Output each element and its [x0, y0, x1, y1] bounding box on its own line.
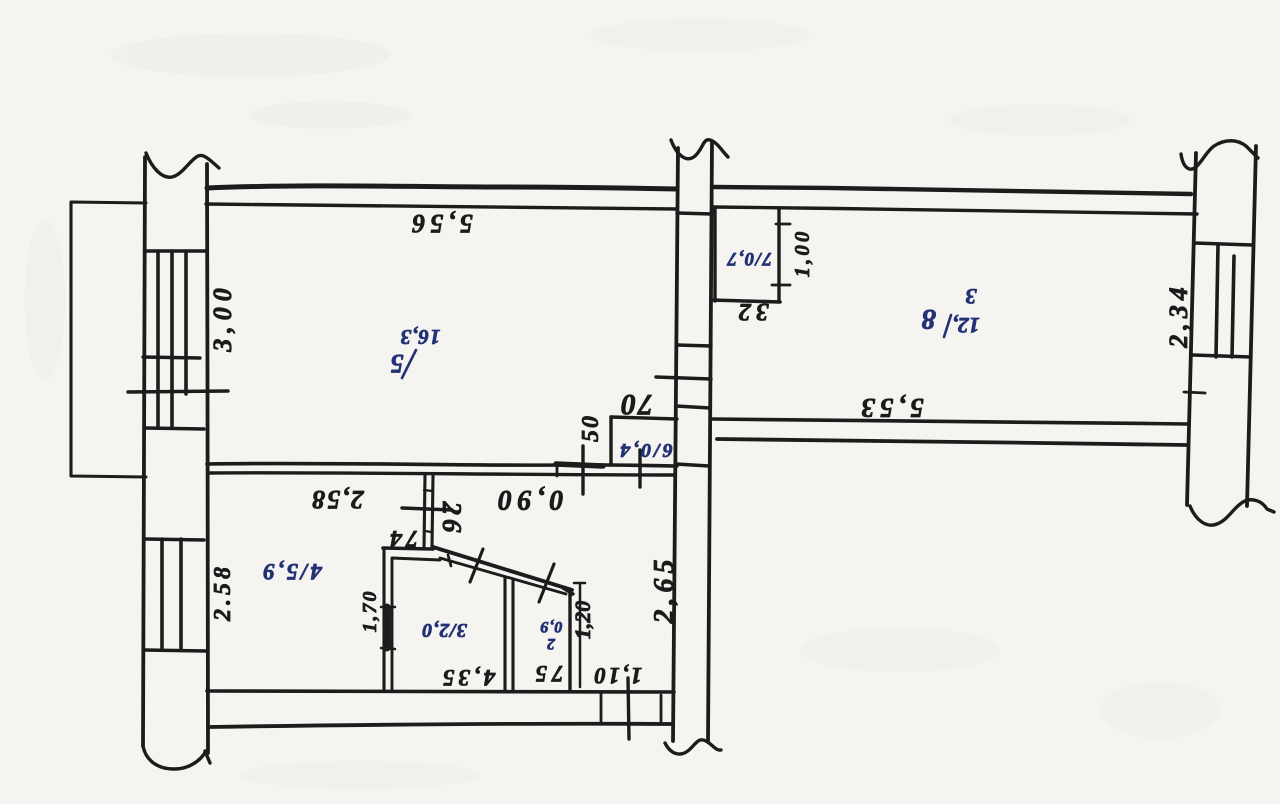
top wall inner line (left block) [206, 204, 677, 209]
closet 7 bottom [711, 300, 780, 302]
closet 7 right edge [777, 209, 780, 301]
svg-text:1,20: 1,20 [570, 601, 595, 640]
svg-text:3,00: 3,00 [208, 282, 237, 353]
interior wall tick c [638, 450, 641, 487]
svg-text:0,9: 0,9 [540, 618, 563, 635]
svg-text:1,10: 1,10 [592, 663, 642, 688]
diagonal tick 2 [539, 564, 554, 602]
closet dim tick bottom [772, 284, 790, 287]
svg-text:5,53: 5,53 [856, 393, 923, 423]
svg-text:4,35: 4,35 [439, 665, 496, 690]
bottom wall left block interior line [207, 691, 674, 692]
stair landing tick 2 [128, 391, 228, 392]
interior wall thick segment [556, 464, 603, 466]
svg-text:16,3: 16,3 [400, 325, 441, 349]
svg-text:7/0,7: 7/0,7 [726, 248, 772, 269]
stairwell upper hatch lines [158, 251, 186, 428]
interior wall room5/room4 upper line [207, 463, 677, 466]
svg-text:74: 74 [386, 525, 418, 551]
svg-text:1,70: 1,70 [359, 590, 381, 633]
interior wall room5/room4 lower line [209, 473, 674, 475]
svg-text:2,58: 2,58 [310, 485, 365, 514]
svg-text:2.58: 2.58 [210, 563, 236, 622]
middle wall top break wave [671, 140, 728, 159]
room3 left wall outer [382, 549, 385, 691]
left wall outer edge [143, 157, 145, 746]
svg-text:0,90: 0,90 [493, 484, 564, 515]
right wall hatch lines [1216, 245, 1234, 357]
right wall bottom break wave [1190, 500, 1274, 525]
svg-text:50: 50 [578, 414, 604, 442]
diagonal wall lower line [440, 558, 566, 594]
bottom wall left block outer line [208, 724, 672, 727]
top wall outer line (right block) [714, 187, 1191, 194]
stairwell lower hatch bottom tick [144, 650, 206, 651]
closet dim tick top [776, 223, 790, 226]
left wall top break wave [146, 153, 219, 177]
right wall hatch top tick [1194, 243, 1252, 245]
svg-text:8: 8 [921, 303, 936, 335]
wall room4/room3 upper right edge [432, 476, 433, 548]
middle wall left edge [673, 148, 678, 741]
jog wall lower [392, 558, 440, 560]
dim line vertical 1.20 [579, 584, 582, 687]
top wall outer line (left block) [207, 186, 677, 189]
svg-text:2: 2 [547, 635, 556, 652]
stair landing tick 1 [143, 357, 200, 358]
right wall top break wave [1181, 141, 1258, 169]
room label 8/12,3 slash [944, 315, 951, 337]
middle wall bottom break wave [665, 740, 721, 754]
rooms 2/3 divider right [511, 581, 514, 691]
diagonal end hook [566, 588, 571, 596]
svg-text:12,: 12, [952, 313, 980, 338]
bottom wall right block lower line [717, 439, 1186, 445]
svg-text:2,65: 2,65 [649, 555, 680, 625]
room2 right wall top blob [563, 588, 573, 594]
stairwell lower hatch top tick [146, 539, 204, 540]
room label 5/16,3 slash [402, 350, 416, 378]
middle wall rung 2 [677, 345, 711, 346]
svg-text:32: 32 [734, 298, 770, 325]
svg-text:2,34: 2,34 [1164, 282, 1193, 349]
stairwell upper hatch bottom tick [146, 428, 204, 429]
right wall right edge [1247, 146, 1256, 506]
svg-text:70: 70 [619, 388, 653, 421]
svg-text:5: 5 [391, 349, 404, 378]
middle wall rung 1 [677, 213, 712, 214]
wall room4/room3 upper left edge [424, 476, 425, 548]
interior wall jamb [556, 465, 559, 476]
diagonal tick 1 [470, 549, 483, 582]
dim line top tick [574, 582, 585, 585]
wall dash a [424, 490, 432, 491]
diagonal wall upper line [433, 547, 572, 590]
svg-text:3/2,0: 3/2,0 [421, 619, 468, 641]
wall tick with dim [402, 508, 452, 510]
middle wall rung 5 [676, 464, 709, 466]
left wall bottom U-curve end [143, 746, 210, 769]
left wall inner edge [207, 164, 208, 753]
top wall inner line (right block) [714, 207, 1197, 214]
room3 door jamb ticks [381, 607, 395, 649]
middle wall rung 4 [676, 406, 710, 408]
balcony outline left [71, 202, 146, 477]
room2 right wall [568, 592, 571, 690]
rooms 2/3 divider left [503, 577, 506, 691]
niche 6 top line [611, 417, 677, 419]
middle wall right edge [708, 141, 712, 741]
svg-text:5,56: 5,56 [407, 209, 473, 238]
stairwell lower hatch lines [162, 539, 181, 650]
right wall hatch bottom tick [1193, 355, 1251, 357]
jog wall upper [383, 548, 433, 549]
bottom wall jamb a [600, 692, 603, 724]
svg-text:3: 3 [966, 284, 978, 309]
wall dash b [425, 531, 431, 532]
svg-text:75: 75 [531, 661, 564, 686]
bottom wall jamb b [660, 695, 663, 722]
right wall left edge [1187, 153, 1196, 505]
bottom wall dim tick [628, 678, 629, 739]
niche 6 left line [609, 417, 612, 465]
interior wall tick b [581, 446, 584, 494]
right wall small tick [1184, 392, 1205, 393]
stairwell upper hatch top tick [146, 249, 206, 252]
closet 7 left edge [713, 209, 716, 301]
svg-text:1,00: 1,00 [790, 229, 814, 278]
room3 left wall inner [391, 559, 394, 691]
svg-text:6/0,4: 6/0,4 [617, 439, 673, 461]
room3 door leaf bar [384, 607, 391, 648]
svg-text:4/5,9: 4/5,9 [260, 559, 323, 584]
bottom wall right block upper line [711, 419, 1188, 424]
middle wall rung 3 with tick [656, 377, 711, 379]
diagonal dash [448, 555, 451, 566]
svg-text:26: 26 [437, 501, 467, 537]
